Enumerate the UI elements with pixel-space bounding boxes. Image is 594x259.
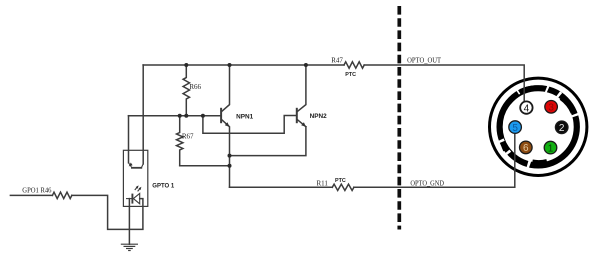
connector pin 2 bbox=[555, 121, 568, 134]
wire GPO1 input bbox=[10, 194, 52, 196]
svg-text:R47: R47 bbox=[331, 56, 343, 64]
wire OPTO_OUT net to connector bbox=[364, 65, 524, 101]
node R66 top bbox=[184, 63, 188, 67]
wire bus drop to opto collector bbox=[142, 65, 144, 164]
wire NPN2 base jog bbox=[203, 116, 296, 134]
wire NPN2 collector bbox=[297, 65, 306, 111]
wire GPO1 to opto LED anode bbox=[72, 195, 143, 229]
transistor NPN2 bbox=[297, 108, 306, 127]
node base jog bbox=[201, 114, 205, 118]
svg-text:PTC: PTC bbox=[345, 72, 356, 78]
resistor R46 bbox=[52, 192, 71, 198]
transistor NPN1 bbox=[221, 108, 229, 127]
svg-text:4: 4 bbox=[524, 103, 530, 114]
dashed boundary line bbox=[397, 6, 401, 230]
svg-text:3: 3 bbox=[548, 103, 554, 114]
connector ring key tabs bbox=[504, 88, 574, 163]
svg-text:PTC: PTC bbox=[335, 178, 346, 184]
wire OPTO_GND net bbox=[230, 186, 333, 188]
connector pin 5 bbox=[509, 121, 522, 134]
svg-text:R66: R66 bbox=[189, 83, 201, 91]
node NPN2 collector at bus bbox=[304, 63, 308, 67]
connector pin 3 bbox=[545, 101, 558, 114]
wire into pin 4 bbox=[523, 78, 525, 101]
wire OPTO_GND to connector pin5 bbox=[354, 134, 515, 188]
connector pin 1 bbox=[544, 141, 557, 154]
svg-text:1: 1 bbox=[548, 143, 554, 154]
wire NPN2 emitter diagonal bbox=[297, 120, 306, 127]
node R67 top bbox=[178, 114, 182, 118]
svg-text:GPO1 R46: GPO1 R46 bbox=[22, 187, 52, 195]
node emitter tie bbox=[228, 154, 232, 158]
opto LED bbox=[126, 185, 141, 203]
connector pin 4 bbox=[520, 101, 532, 114]
svg-text:GPTO 1: GPTO 1 bbox=[152, 183, 175, 189]
wire R67 bottom to emitter rail bbox=[180, 165, 230, 167]
wire node drop to opto emitter bbox=[128, 116, 130, 163]
opto phototransistor bbox=[129, 163, 144, 168]
svg-text:OPTO_OUT: OPTO_OUT bbox=[407, 57, 442, 65]
svg-text:R67: R67 bbox=[182, 133, 194, 141]
wire top supply bus left segment bbox=[143, 64, 344, 66]
opto-isolator GPTO 1 body bbox=[123, 150, 147, 206]
svg-text:NPN1: NPN1 bbox=[236, 114, 253, 121]
node junction dots bbox=[178, 63, 308, 168]
svg-text:6: 6 bbox=[523, 143, 529, 154]
svg-text:NPN2: NPN2 bbox=[310, 113, 327, 120]
ground bbox=[121, 244, 138, 250]
resistor R47 bbox=[344, 62, 364, 68]
wire base node line bbox=[129, 115, 221, 117]
wire into pin 5 bbox=[514, 134, 516, 172]
wire NPN1 collector bbox=[222, 65, 230, 111]
wire emitter tie NPN1-NPN2 bbox=[230, 127, 306, 156]
svg-text:2: 2 bbox=[559, 123, 565, 134]
connector pin 6 bbox=[520, 141, 533, 154]
svg-text:OPTO_GND: OPTO_GND bbox=[410, 180, 444, 188]
wire LED cathode to ground bbox=[128, 199, 130, 245]
resistor R67 bbox=[177, 116, 183, 166]
svg-text:R11: R11 bbox=[317, 180, 329, 188]
svg-text:5: 5 bbox=[512, 123, 518, 134]
node R67 bottom tie bbox=[228, 164, 232, 168]
resistor R66 bbox=[183, 65, 189, 116]
node R66 bottom bbox=[184, 114, 188, 118]
wire NPN1 emitter down bbox=[222, 120, 230, 188]
connector ring notches bbox=[500, 89, 576, 165]
resistor R11 bbox=[332, 184, 354, 190]
connector J1 keyed ring bbox=[500, 88, 577, 165]
node NPN1 collector at bus bbox=[228, 63, 232, 67]
connector J1 outer shell bbox=[490, 78, 587, 175]
